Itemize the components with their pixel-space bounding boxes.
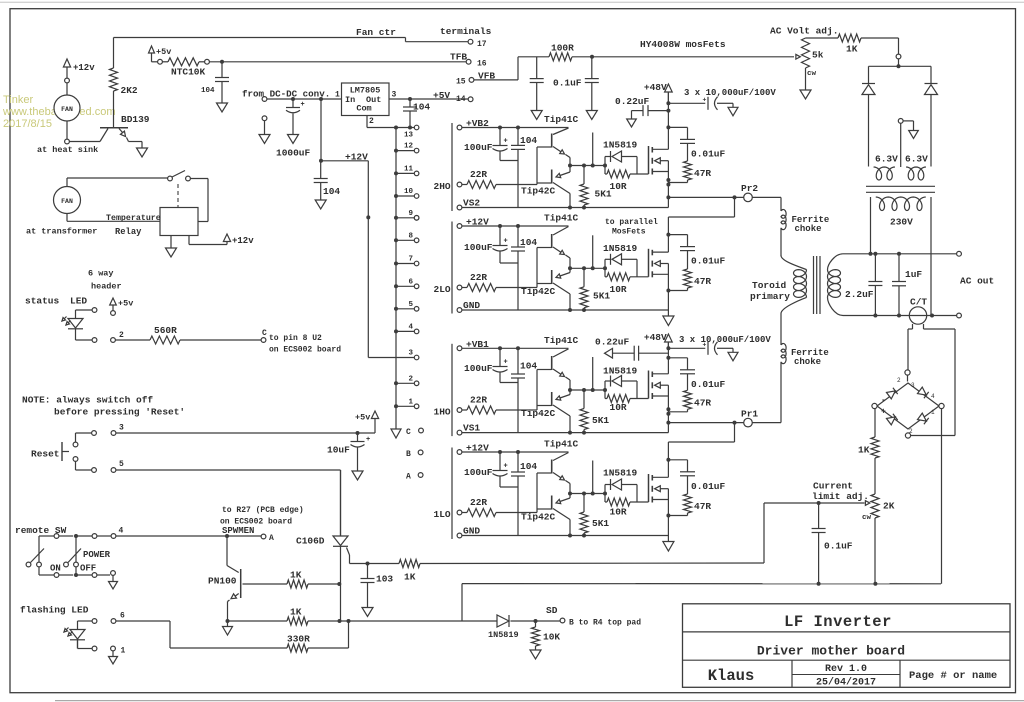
svg-text:16: 16 (477, 60, 487, 69)
transistor Q1 BD139 (100, 127, 128, 129)
svg-text:+: + (504, 463, 508, 471)
transistor Tip41C (1HO) (551, 356, 553, 370)
svg-text:5K1: 5K1 (593, 291, 610, 302)
junction 100R output (590, 55, 594, 59)
svg-text:104: 104 (520, 135, 537, 146)
terminal bridge AC bottom (905, 433, 910, 438)
capacitor 104 (NTC filter) (221, 62, 223, 78)
supply +5v arrow (NTC) (149, 46, 155, 53)
svg-text:104: 104 (520, 461, 537, 472)
svg-text:0.22uF: 0.22uF (615, 96, 650, 107)
wire +12V rail (320, 99, 322, 161)
svg-text:limit adj.: limit adj. (812, 491, 869, 502)
ground (5k pot) (805, 68, 807, 90)
svg-text:cw: cw (807, 70, 817, 78)
bracket 1LO block (451, 448, 453, 540)
wire pin6 to 330R (116, 620, 170, 622)
svg-text:Tinker: Tinker (3, 94, 33, 106)
svg-text:4: 4 (931, 393, 935, 400)
terminal VS1 (1HO) and bottom rail (457, 430, 462, 435)
bridge rectifier BR1 (877, 383, 939, 429)
transformer T2 230V winding (876, 197, 926, 211)
svg-text:Com: Com (356, 104, 371, 114)
ground (103) (362, 608, 373, 617)
svg-text:Rev 1.0: Rev 1.0 (825, 664, 867, 675)
capacitor 100uF (2HO) (499, 128, 501, 146)
svg-text:B: B (406, 450, 411, 459)
wire DC-DC input to regulator (262, 97, 267, 102)
terminal +VB2 (2HO) and supply rail (457, 125, 462, 130)
wire bridge minus to rail (941, 409, 943, 584)
capacitor 0.22uF with ground (1HO) (605, 348, 613, 358)
svg-text:header: header (91, 282, 122, 292)
svg-text:Tip42C: Tip42C (521, 186, 556, 197)
svg-text:10: 10 (404, 188, 414, 196)
connector B to R4 top pad (534, 619, 538, 623)
diode D4 (6.3V rectifier left) (868, 66, 870, 83)
wire Pr1 to 1LO drain (734, 423, 736, 442)
svg-text:primary: primary (750, 291, 790, 302)
svg-text:7: 7 (408, 256, 413, 264)
wire +48V column 2HO (667, 92, 669, 127)
wire 230V left lead (870, 197, 872, 254)
svg-text:+: + (504, 238, 508, 246)
svg-text:47R: 47R (694, 276, 711, 287)
terminal GND (2LO) and bottom rail (457, 308, 462, 313)
svg-text:C/T: C/T (910, 297, 927, 308)
scan artifact bottom edge (55, 700, 1024, 702)
resistor 2K2 (113, 38, 115, 69)
svg-text:+: + (504, 359, 508, 367)
svg-text:C106D: C106D (296, 536, 325, 547)
svg-text:at transformer: at transformer (26, 227, 97, 237)
diode 1N5819 with resistor 10R (2HO) (604, 157, 606, 166)
terminal circle feedback node (898, 38, 900, 54)
svg-text:+12V: +12V (466, 217, 489, 228)
inductor ferrite choke (Pr1) (780, 314, 782, 346)
terminal circle fan heatsink bottom (65, 139, 70, 144)
svg-text:1N5819: 1N5819 (603, 243, 638, 254)
wire 230V right lead (930, 197, 932, 316)
svg-text:+: + (881, 408, 886, 417)
svg-text:3 x 10,000uF/100V: 3 x 10,000uF/100V (679, 335, 771, 345)
svg-text:GND: GND (463, 526, 480, 537)
svg-text:+5v: +5v (118, 299, 133, 309)
capacitor 104 (+12V) (320, 161, 322, 179)
ground (10uF) (352, 471, 363, 480)
transistor Tip42C (2LO) (551, 270, 553, 284)
svg-text:A: A (406, 473, 411, 482)
wire AC out bottom (871, 315, 957, 317)
svg-text:3: 3 (119, 424, 124, 433)
svg-text:+12V: +12V (466, 443, 489, 454)
svg-text:1K: 1K (404, 572, 416, 583)
svg-text:2: 2 (909, 428, 913, 435)
capacitor 10uF (357, 433, 359, 442)
wire terminal bus (395, 128, 397, 430)
svg-text:6.3V: 6.3V (875, 154, 898, 165)
svg-text:5: 5 (119, 460, 124, 469)
capacitor 104 (2HO) (517, 128, 519, 146)
bracket 1HO block (451, 344, 453, 436)
svg-text:status: status (25, 296, 60, 307)
svg-text:+48V: +48V (644, 332, 667, 343)
svg-text:15: 15 (456, 78, 466, 87)
wire fan2 top (66, 178, 68, 186)
wire 2K bottom to rail (874, 518, 876, 584)
svg-text:+VB1: +VB1 (466, 339, 489, 350)
svg-text:Tip41C: Tip41C (544, 213, 579, 224)
svg-text:Page # or name: Page # or name (909, 670, 997, 682)
svg-text:0.01uF: 0.01uF (691, 481, 726, 492)
svg-text:+5V: +5V (433, 90, 450, 101)
capacitor 104 (1LO) (517, 452, 519, 472)
svg-text:2: 2 (408, 375, 413, 383)
wire Com to terminal 13 (366, 116, 368, 128)
svg-text:+: + (504, 138, 508, 146)
svg-text:In: In (345, 95, 355, 105)
svg-text:AC Volt adj.: AC Volt adj. (770, 26, 838, 37)
svg-text:VS1: VS1 (463, 423, 480, 434)
svg-text:2.2uF: 2.2uF (845, 289, 874, 300)
potentiometer 2K current limit adj (871, 494, 879, 518)
terminal 14 +5V (468, 97, 473, 102)
wire +48V column 1HO (667, 342, 669, 358)
terminal +VB1 (1HO) and supply rail (457, 346, 462, 351)
fan M1 at heat sink (54, 95, 80, 121)
header pin 5 (92, 468, 97, 473)
svg-text:+: + (366, 436, 370, 444)
svg-text:+: + (301, 101, 305, 109)
svg-text:+VB2: +VB2 (466, 118, 489, 129)
svg-text:1: 1 (408, 398, 413, 406)
terminal +12V (1LO) and supply rail (457, 450, 462, 455)
thermistor NTC10K (168, 58, 199, 66)
junction TFB/cap (220, 60, 224, 64)
transformer T2 6.3V winding left (874, 167, 895, 180)
capacitor 104 (+5V) (409, 99, 411, 107)
ground header pin (111, 571, 116, 576)
svg-text:13: 13 (404, 132, 414, 140)
transformer T1 toroid primary winding (794, 270, 807, 298)
svg-text:5k: 5k (812, 50, 824, 61)
svg-text:47R: 47R (694, 501, 711, 512)
relay actuator dashed link (177, 184, 179, 207)
wire fan heatsink leads (66, 83, 68, 95)
svg-text:Klaus: Klaus (708, 667, 755, 685)
svg-text:cw: cw (862, 514, 872, 522)
svg-text:Tip42C: Tip42C (521, 286, 556, 297)
wire 2K wiper to gate network (764, 502, 865, 504)
resistor 5K1 (1HO) (583, 390, 585, 409)
svg-text:flashing LED: flashing LED (20, 605, 89, 616)
svg-text:22R: 22R (470, 497, 487, 508)
svg-text:103: 103 (376, 574, 393, 585)
svg-text:104: 104 (413, 102, 430, 113)
wire Pr2 to 2LO drain (parallel mosfets) (734, 197, 736, 217)
svg-text:104: 104 (520, 361, 537, 372)
terminal VS2 (2HO) and bottom rail (457, 205, 462, 210)
svg-text:Tip42C: Tip42C (521, 512, 556, 523)
svg-text:HY4008W mosFets: HY4008W mosFets (640, 39, 726, 50)
svg-text:at heat sink: at heat sink (37, 145, 98, 155)
terminal circle NTC left (158, 59, 163, 64)
svg-text:47R: 47R (694, 168, 711, 179)
svg-text:6.3V: 6.3V (905, 154, 928, 165)
diode D5 (6.3V rectifier right) (930, 66, 932, 83)
wire VFB riser (474, 79, 518, 81)
wire mosfet source/drain column (2LO) (667, 235, 669, 253)
svg-text:+5v: +5v (355, 413, 370, 423)
svg-text:2K2: 2K2 (121, 85, 138, 96)
resistor 22R (1HO) with input terminal (457, 408, 462, 413)
svg-text:choke: choke (795, 224, 822, 234)
svg-text:0.22uF: 0.22uF (595, 336, 630, 347)
svg-text:2K: 2K (883, 501, 895, 512)
svg-text:GND: GND (463, 300, 480, 311)
svg-text:47R: 47R (694, 397, 711, 408)
svg-text:PN100: PN100 (208, 576, 237, 587)
header pin 4 (111, 534, 116, 539)
resistor 1K (gate to current limit) (368, 563, 400, 565)
wire fan2 bottom to relay (66, 214, 68, 222)
terminal 15 VFB (469, 78, 474, 83)
svg-text:3: 3 (911, 382, 915, 389)
svg-text:230V: 230V (890, 217, 913, 228)
regulator U2 LM7805 (342, 83, 390, 116)
wire driver output node (2LO) (570, 267, 605, 269)
supply +12v arrow (relay) (188, 236, 190, 245)
svg-text:SPWMEN: SPWMEN (222, 526, 254, 536)
wire base tie (2LO) (536, 248, 538, 288)
capacitor 100uF (2LO) (499, 226, 501, 246)
wire rectifier cathodes (869, 65, 932, 67)
wire driver output node (2HO) (570, 165, 605, 167)
inductor ferrite choke (Pr2) (780, 197, 782, 211)
capacitor 104 (2LO) (517, 226, 519, 247)
svg-text:1K: 1K (290, 607, 302, 618)
transistor Tip41C (2HO) (551, 134, 553, 148)
ground (1LO source) (667, 536, 669, 542)
svg-text:to pin 8 U2: to pin 8 U2 (269, 334, 322, 343)
wire pin3 to +5v node (116, 432, 356, 434)
wire base tie (1HO) (536, 370, 538, 411)
capacitor 0.22uF with ground (2HO) (666, 109, 670, 113)
resistor 22R (2HO) with input terminal (457, 182, 462, 187)
wire pin4 to SPWMEN (116, 535, 227, 537)
svg-text:MosFets: MosFets (612, 228, 646, 237)
svg-text:terminals: terminals (440, 26, 492, 37)
mosfet HY4008W (2HO) (648, 146, 650, 174)
svg-text:0.01uF: 0.01uF (691, 379, 726, 390)
snubber capacitor 0.01uF and resistor 47R (2HO) (668, 126, 687, 128)
svg-text:to R27 (PCB edge): to R27 (PCB edge) (222, 506, 304, 515)
svg-text:OFF: OFF (80, 564, 96, 574)
svg-text:SD: SD (546, 605, 558, 616)
svg-text:+12V: +12V (345, 152, 368, 163)
resistor 1K (AC volt adj) (806, 37, 839, 39)
capacitors 0.1uF pair with grounds (536, 57, 538, 79)
svg-text:10R: 10R (610, 402, 627, 413)
terminal circle NTC right (199, 61, 205, 63)
svg-text:AC out: AC out (960, 276, 994, 287)
svg-text:from DC-DC conv.: from DC-DC conv. (242, 89, 330, 100)
transistor Tip42C (2HO) (551, 170, 553, 184)
svg-text:2017/8/15: 2017/8/15 (3, 118, 52, 130)
svg-text:+5v: +5v (156, 47, 171, 57)
capacitor bank 3 x 10,000uF/100V with ground (666, 101, 670, 105)
svg-text:4: 4 (408, 323, 413, 331)
svg-text:4: 4 (119, 527, 124, 536)
svg-text:1N5819: 1N5819 (603, 140, 638, 151)
svg-text:2: 2 (119, 331, 124, 340)
resistor 5K1 (1LO) (583, 494, 585, 513)
svg-text:to parallel: to parallel (605, 218, 658, 227)
svg-text:Fan ctr: Fan ctr (356, 27, 396, 38)
svg-text:2: 2 (369, 117, 374, 126)
wire mosfet source/drain column (2HO) (667, 127, 669, 149)
wire AC out top (871, 253, 957, 255)
svg-text:1N5819: 1N5819 (603, 468, 638, 479)
svg-text:0.1uF: 0.1uF (824, 541, 853, 552)
ground (relay) (170, 236, 172, 249)
terminal bridge AC top (905, 370, 910, 375)
svg-text:22R: 22R (470, 169, 487, 180)
header pin +5v (110, 298, 117, 305)
transformer T2 6.3V winding right (906, 167, 926, 180)
capacitor 2.2uF (874, 254, 876, 282)
fan M2 at transformer (54, 187, 81, 214)
terminal GND (1LO) and bottom rail (457, 533, 462, 538)
transistor Tip41C (1LO) (551, 460, 553, 474)
connector C to pin 8 U2 on ECS002 board (261, 338, 266, 343)
potentiometer 5k AC volt adj (796, 54, 800, 59)
resistor 1K (current limit) (874, 409, 876, 437)
wire base tie (2HO) (536, 147, 538, 185)
scan artifact top edge (0, 1, 1024, 3)
bracket 2LO block (451, 222, 453, 314)
svg-text:C: C (262, 329, 267, 338)
svg-text:Temperature: Temperature (106, 214, 161, 223)
terminal 17 (468, 39, 473, 44)
svg-text:1HO: 1HO (434, 407, 451, 418)
wire relay contact to coil (190, 178, 208, 180)
svg-text:LM7805: LM7805 (350, 86, 381, 96)
svg-text:6 way: 6 way (88, 269, 114, 279)
supply +5v arrow (reset) (371, 411, 378, 419)
svg-text:3: 3 (408, 350, 413, 358)
terminal circle fan heatsink top (65, 78, 70, 83)
connector A SPWMEN to R27 (225, 534, 229, 538)
resistor 5K1 (2HO) (583, 166, 585, 185)
thyristor U3 C106D (340, 470, 342, 536)
stub parallel mosfet gate feed (2LO) (592, 235, 594, 268)
stub parallel mosfet gate feed (1HO) (592, 357, 594, 390)
svg-text:100uF: 100uF (464, 242, 493, 253)
svg-text:POWER: POWER (83, 550, 111, 560)
svg-text:3 x 10,000uF/100V: 3 x 10,000uF/100V (684, 88, 776, 98)
svg-text:+48V: +48V (644, 82, 667, 93)
svg-text:22R: 22R (470, 272, 487, 283)
svg-text:TFB: TFB (450, 52, 467, 63)
svg-text:1N5819: 1N5819 (488, 630, 519, 640)
svg-text:1: 1 (931, 409, 935, 416)
svg-text:100uF: 100uF (464, 467, 493, 478)
svg-text:2HO: 2HO (434, 181, 451, 192)
svg-text:6: 6 (408, 278, 413, 286)
ground (NTC filter) (217, 103, 228, 112)
svg-text:104: 104 (520, 237, 537, 248)
transistor Tip41C (2LO) (551, 234, 553, 248)
switch remote SW power on/off (39, 535, 54, 537)
svg-text:before pressing 'Reset': before pressing 'Reset' (54, 407, 185, 418)
svg-text:1: 1 (335, 91, 340, 100)
svg-text:10K: 10K (543, 632, 560, 643)
svg-text:10R: 10R (610, 181, 627, 192)
svg-text:0.01uF: 0.01uF (691, 256, 726, 267)
supply +12v arrow (fan at heat sink) (63, 59, 70, 67)
relay contact switch (168, 176, 173, 181)
relay K1 Temperature Relay box (160, 208, 198, 236)
svg-text:100uF: 100uF (464, 363, 493, 374)
svg-text:104: 104 (201, 87, 215, 95)
svg-text:BD139: BD139 (121, 114, 150, 125)
svg-text:A: A (269, 534, 274, 543)
svg-text:2: 2 (897, 377, 901, 384)
diode D3 1N5819 SD (462, 620, 497, 622)
ground (terminal bus) (391, 429, 401, 438)
resistor 100R (518, 56, 549, 58)
diode 1N5819 with resistor 10R (2LO) (604, 259, 606, 268)
capacitor 100uF (1HO) (499, 348, 501, 366)
svg-text:2LO: 2LO (434, 284, 451, 295)
svg-text:10R: 10R (610, 284, 627, 295)
ground (2LO source) (667, 310, 669, 316)
wire bottom return rail (461, 584, 463, 621)
wire mosfet source/drain column (1HO) (667, 358, 669, 374)
transformer T1 core (813, 256, 815, 314)
wire Fan ctr to terminal 17 (114, 37, 406, 39)
svg-text:100R: 100R (551, 43, 574, 54)
svg-text:C: C (406, 428, 411, 437)
terminal AC out top (957, 251, 962, 256)
svg-text:560R: 560R (154, 325, 177, 336)
svg-text:B to R4 top pad: B to R4 top pad (569, 619, 641, 628)
terminals bridge DC out (872, 403, 877, 408)
terminal 13 (414, 125, 419, 130)
svg-text:Tip41C: Tip41C (544, 114, 579, 125)
snubber capacitor 0.01uF and resistor 47R (1LO) (668, 459, 687, 461)
svg-text:1: 1 (121, 647, 126, 656)
title block (683, 604, 1011, 688)
svg-text:17: 17 (477, 40, 487, 49)
transistor Tip42C (1LO) (551, 496, 553, 510)
header pin 6 (111, 619, 116, 624)
wire pin5 to C106D anode (116, 469, 341, 471)
bracket 2HO block (451, 123, 453, 211)
svg-text:0.1uF: 0.1uF (553, 78, 582, 89)
svg-text:VS2: VS2 (463, 198, 480, 209)
svg-text:Current: Current (813, 481, 853, 492)
header pin 2 (111, 338, 116, 343)
capacitor 0.1uF (current limit) (818, 503, 820, 529)
wire +5V to terminal 14 (389, 98, 468, 100)
terminal DC-DC negative (262, 116, 267, 121)
header pin 3 (92, 431, 97, 436)
ground (10K) (530, 650, 541, 659)
wire TFB to terminal 16 (209, 61, 466, 63)
ground (PN100 emitter) (226, 619, 230, 623)
